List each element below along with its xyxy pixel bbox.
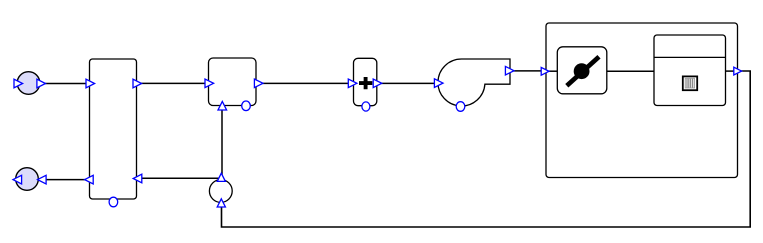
sink left port triangle — [13, 175, 22, 184]
valve block body — [209, 58, 257, 106]
radiator icon outer square — [683, 76, 697, 90]
wire fan to room — [513, 70, 547, 72]
boundary source circle — [17, 72, 40, 95]
plus block bottom circle port — [362, 102, 370, 111]
heat exchanger bottom-right port — [133, 174, 142, 183]
wire valve icon to radiator block — [607, 70, 655, 72]
valve icon ball — [574, 63, 590, 79]
controller top output triangle — [217, 173, 225, 181]
fan volute body — [438, 59, 510, 106]
valve block bottom circle port — [242, 101, 251, 111]
room outlet port — [734, 67, 742, 75]
wire room inlet to valve icon — [549, 70, 558, 72]
radiator icon inner grille — [685, 78, 694, 88]
plus sign — [359, 77, 372, 89]
wire source to heat exchanger — [45, 83, 90, 85]
heat exchanger bottom circle port — [109, 197, 118, 207]
wire heat exchanger bottom right to controller junction — [137, 177, 222, 179]
sink right port triangle — [38, 175, 47, 184]
valve block left port — [205, 79, 214, 88]
heat exchanger body — [90, 59, 137, 199]
wire heat exchanger bottom left to sink — [45, 179, 90, 181]
heat exchanger bottom-left port — [85, 175, 94, 184]
wire plus block to fan — [381, 82, 435, 84]
plus (heater) block body — [354, 58, 377, 105]
controller circle — [209, 180, 232, 203]
room model body — [546, 23, 738, 178]
valve block right port — [254, 79, 263, 88]
valve icon block inside room — [557, 47, 607, 94]
source left port triangle — [14, 79, 23, 88]
heat exchanger top-left port — [86, 79, 95, 88]
wire heat exchanger to valve block — [136, 82, 209, 84]
fan bottom circle port — [456, 102, 465, 112]
room inlet port — [541, 67, 549, 75]
plus block left port — [348, 79, 357, 88]
fan outlet port — [505, 66, 514, 75]
radiator block divider line — [654, 56, 726, 58]
valve block bottom input triangle — [218, 101, 227, 110]
source right port triangle — [37, 79, 46, 88]
wire radiator block to room outlet — [725, 70, 738, 72]
radiator block body — [654, 35, 726, 106]
feedback wire room output down around to controller — [222, 71, 751, 227]
wire valve block down to controller — [221, 106, 223, 175]
heat exchanger top-right port — [133, 79, 142, 88]
plus block right port — [373, 79, 382, 88]
boundary sink circle — [16, 168, 39, 191]
fan inlet port — [434, 79, 443, 88]
controller bottom input triangle — [217, 199, 225, 207]
wire valve block to plus block — [263, 82, 354, 84]
valve icon rod — [567, 57, 599, 86]
